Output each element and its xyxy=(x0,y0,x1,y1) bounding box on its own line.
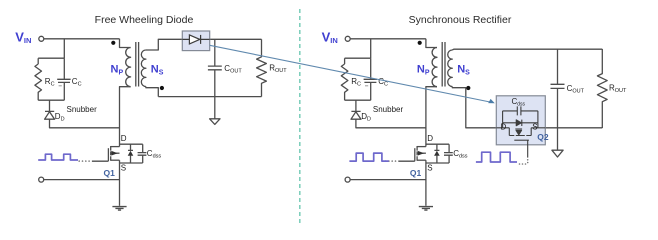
svg-text:D: D xyxy=(121,134,127,143)
svg-text:D: D xyxy=(501,123,507,132)
svg-text:S: S xyxy=(121,163,126,172)
svg-text:S: S xyxy=(532,123,537,132)
svg-text:Free Wheeling Diode: Free Wheeling Diode xyxy=(95,14,194,26)
svg-text:Snubber: Snubber xyxy=(67,105,98,114)
svg-text:Q1: Q1 xyxy=(104,168,116,178)
svg-text:Q2: Q2 xyxy=(537,132,549,142)
svg-text:Synchronous Rectifier: Synchronous Rectifier xyxy=(409,14,512,26)
